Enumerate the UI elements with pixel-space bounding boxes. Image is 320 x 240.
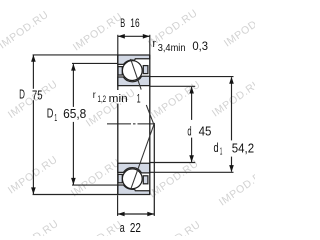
svg-text:d: d bbox=[214, 141, 219, 155]
svg-text:1,2: 1,2 bbox=[98, 94, 107, 104]
svg-text:1: 1 bbox=[220, 147, 223, 158]
svg-text:3,4min: 3,4min bbox=[158, 43, 186, 54]
svg-text:54,2: 54,2 bbox=[232, 142, 254, 156]
svg-text:16: 16 bbox=[130, 16, 140, 30]
svg-text:r: r bbox=[153, 38, 157, 50]
svg-text:45: 45 bbox=[199, 125, 212, 139]
svg-text:65,8: 65,8 bbox=[63, 107, 86, 121]
svg-text:75: 75 bbox=[32, 89, 43, 103]
svg-text:d: d bbox=[187, 125, 191, 139]
svg-text:D: D bbox=[19, 88, 25, 102]
svg-text:min: min bbox=[109, 93, 128, 105]
svg-text:1: 1 bbox=[137, 92, 141, 106]
svg-text:0,3: 0,3 bbox=[192, 41, 208, 53]
svg-text:1: 1 bbox=[54, 113, 57, 124]
svg-text:a: a bbox=[120, 221, 125, 235]
svg-text:B: B bbox=[120, 16, 125, 30]
svg-text:D: D bbox=[47, 107, 54, 121]
svg-text:22: 22 bbox=[130, 221, 141, 235]
